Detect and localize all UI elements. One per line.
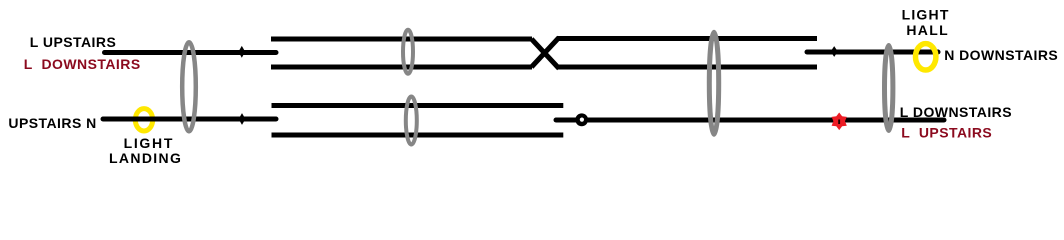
wire upstairs neutral (left bottom) xyxy=(103,117,276,122)
junction node (diamond) on hall light wire xyxy=(831,46,838,57)
svg-text:HALL: HALL xyxy=(906,22,949,38)
svg-text:L DOWNSTAIRS: L DOWNSTAIRS xyxy=(900,104,1012,120)
wire strapper pair upper-left top core xyxy=(271,37,532,42)
svg-text:LIGHT: LIGHT xyxy=(902,7,950,23)
junction node (diamond) on L upstairs wire xyxy=(238,46,245,58)
wire crossover diagonal (bottom-left to top-right) xyxy=(532,38,560,68)
svg-text:LIGHT: LIGHT xyxy=(124,135,175,151)
wire lower pair bottom core xyxy=(272,133,564,138)
svg-text:L DOWNSTAIRS: L DOWNSTAIRS xyxy=(24,56,141,72)
wire L upstairs feed (left top) xyxy=(105,50,277,55)
wire strapper pair upper-right bottom core xyxy=(557,65,817,70)
svg-text:L UPSTAIRS: L UPSTAIRS xyxy=(901,125,992,141)
connector ring (donut) on neutral return xyxy=(575,113,588,126)
wire strapper pair upper-left bottom core xyxy=(271,65,532,70)
cable sheath ellipse lower middle (gray) xyxy=(406,97,417,145)
lamp LIGHT LANDING (yellow ring, under wire) xyxy=(135,109,152,131)
cable sheath ellipse upper middle (gray) xyxy=(403,30,413,74)
cable sheath ellipse left (gray) xyxy=(182,42,196,131)
wire lower pair top core xyxy=(272,103,564,108)
wire strapper pair upper-right top core xyxy=(557,36,817,41)
lamp LIGHT HALL (yellow ring, over wire) xyxy=(916,44,936,70)
svg-text:LANDING: LANDING xyxy=(109,150,182,166)
cable sheath ellipse right (gray) xyxy=(885,46,893,131)
cable sheath ellipse tall middle (gray) xyxy=(709,32,718,134)
svg-text:N DOWNSTAIRS: N DOWNSTAIRS xyxy=(944,47,1058,63)
wire switched live to hall light xyxy=(807,50,938,55)
wire crossover diagonal (top-left to bottom-right) xyxy=(532,39,560,69)
junction node (diamond) on neutral wire xyxy=(239,113,246,125)
wire neutral return lower-right xyxy=(556,118,944,123)
svg-text:L UPSTAIRS: L UPSTAIRS xyxy=(30,34,116,50)
junction star (red) on neutral return xyxy=(832,113,847,131)
svg-text:UPSTAIRS N: UPSTAIRS N xyxy=(8,115,96,131)
